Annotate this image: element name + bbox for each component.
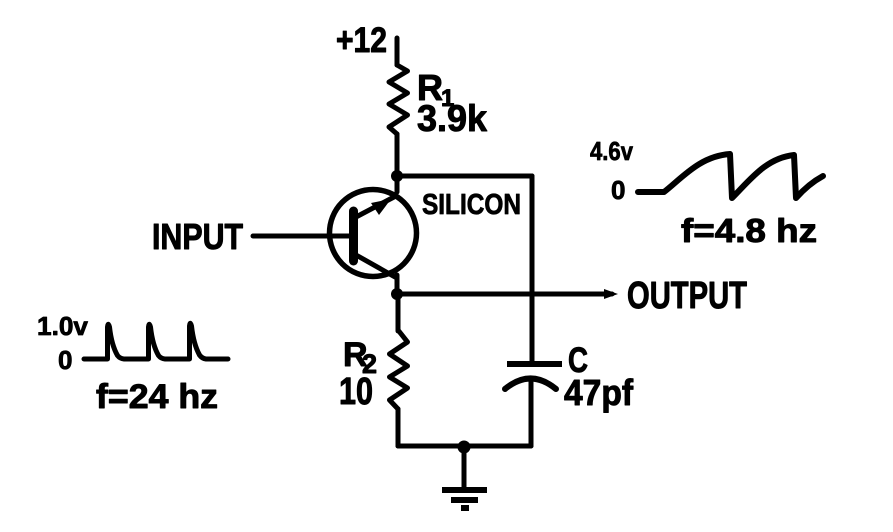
resistor R2 — [390, 330, 408, 409]
ground stem — [462, 447, 467, 489]
node emitter junction dot — [391, 170, 403, 182]
resistor R1 — [389, 65, 408, 134]
label R2 — [343, 336, 377, 379]
wire right rail (vertical, down to capacitor C) — [530, 176, 535, 364]
input waveform (pulse train) — [84, 323, 228, 359]
svg-text:0: 0 — [611, 175, 625, 205]
svg-text:4.6v: 4.6v — [590, 136, 633, 166]
output line arrow tip — [604, 289, 618, 299]
node ground junction dot — [458, 441, 471, 454]
wire R1 bottom to emitter node — [395, 134, 400, 192]
C bottom curved plate — [505, 379, 556, 390]
ground bar 3 — [461, 505, 469, 511]
wire transistor bottom to output node — [395, 275, 400, 296]
wire R2 bottom to ground rail — [396, 409, 401, 446]
wire INPUT to base — [253, 234, 350, 239]
wire bottom rail — [398, 444, 531, 449]
Q1 top lead (arrow, to R1 node) — [356, 197, 394, 217]
Q1 arrowhead — [371, 199, 391, 215]
Q1 body circle — [330, 190, 417, 277]
svg-text:10: 10 — [339, 371, 373, 413]
svg-text:1.0v: 1.0v — [37, 311, 89, 341]
svg-text:f=24 hz: f=24 hz — [96, 378, 218, 416]
node output junction dot — [391, 288, 403, 300]
wire emitter node to right rail (top side) — [397, 174, 532, 179]
C bottom lead — [529, 379, 534, 446]
ground — [442, 447, 487, 508]
ground bar 2 — [451, 497, 478, 503]
wire output node down to R2 — [396, 294, 401, 331]
wire +12 lead down to R1 — [395, 38, 400, 65]
svg-text:SILICON: SILICON — [422, 189, 521, 221]
label R1 — [417, 67, 454, 112]
svg-text:3.9k: 3.9k — [417, 98, 487, 139]
ground bar 1 — [442, 487, 487, 493]
output waveform (sawtooth) — [638, 154, 823, 198]
svg-text:OUTPUT: OUTPUT — [627, 275, 747, 317]
svg-text:0: 0 — [58, 345, 72, 375]
capacitor C — [505, 364, 562, 446]
svg-text:+12: +12 — [336, 21, 387, 60]
Q1 bottom lead (to output node) — [356, 255, 395, 277]
svg-text:INPUT: INPUT — [152, 216, 243, 257]
svg-text:f=4.8 hz: f=4.8 hz — [681, 212, 817, 249]
transistor Q1 — [330, 190, 417, 278]
svg-text:47pf: 47pf — [564, 372, 634, 413]
C top plate — [507, 361, 562, 367]
wire output line — [397, 292, 612, 297]
Q1 base bar — [349, 211, 358, 261]
